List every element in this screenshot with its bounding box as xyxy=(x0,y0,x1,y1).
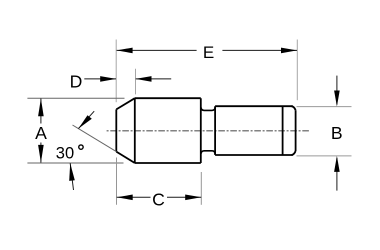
30-deg lower leader line xyxy=(70,163,73,190)
dimension D left arrow (points right at ext line) xyxy=(100,76,116,82)
extension line: A bottom horizontal / 30-deg reference xyxy=(27,162,123,164)
degree symbol of 30-deg label xyxy=(79,145,83,149)
part outline: end chamfer start vertical xyxy=(282,106,284,155)
dimension A line bottom segment xyxy=(40,143,42,163)
svg-text:E: E xyxy=(203,43,214,62)
part outline: nose left face xyxy=(115,109,117,151)
part outline: right end face xyxy=(295,110,297,151)
part outline: main cylinder top edge xyxy=(135,97,201,99)
extension line: right of E (x=297.3) xyxy=(296,40,298,101)
part outline: end chamfer bottom xyxy=(292,151,296,155)
dimension D leader left xyxy=(84,78,116,80)
svg-text:C: C xyxy=(152,189,165,209)
part outline: B cylinder top edge xyxy=(215,105,293,107)
extension line: B bottom horizontal xyxy=(297,155,352,157)
dimension A top arrow xyxy=(38,99,44,117)
svg-text:A: A xyxy=(35,123,47,143)
dimension A bottom arrow xyxy=(38,145,44,163)
extension line: C right vertical xyxy=(200,172,202,205)
30-deg upper arrow (points down-left onto chamfer extension) xyxy=(78,115,91,128)
part outline: top 30-deg chamfer xyxy=(116,98,135,109)
dimension C line right segment xyxy=(167,196,201,198)
dimension C line left segment xyxy=(117,196,151,198)
dimension E right arrow xyxy=(281,48,297,54)
part outline: step shoulder vertical xyxy=(214,106,216,155)
dimension C right arrow xyxy=(185,195,201,201)
extension line: 30-deg chamfer extension xyxy=(73,125,117,152)
part outline: main cylinder right face xyxy=(200,98,202,163)
centerline (part axis) xyxy=(107,130,310,132)
extension line: right of D (x=135.5) xyxy=(135,69,137,95)
dimension E line left segment xyxy=(117,49,197,51)
svg-text:B: B xyxy=(331,123,343,143)
part outline: chamfer tangent vertical xyxy=(134,98,136,163)
dimension D right tail xyxy=(136,78,172,80)
dimension D right arrow (points left at ext line) xyxy=(136,76,152,82)
30-deg lower arrow (points up onto reference line) xyxy=(69,163,75,181)
part outline: bottom 30-deg chamfer xyxy=(116,152,135,163)
30-deg upper leader line xyxy=(78,111,94,128)
extension line: A top horizontal xyxy=(27,97,124,99)
part outline: neck groove bottom with fillets xyxy=(201,151,215,154)
extension line: B top horizontal xyxy=(297,106,352,108)
dimension C left arrow xyxy=(117,195,133,201)
part outline: neck groove top with fillets xyxy=(201,107,215,110)
dimension B top tail xyxy=(336,76,338,105)
part outline: B cylinder bottom edge xyxy=(215,154,293,156)
dimension E line right segment xyxy=(222,49,297,51)
dimension A line top segment xyxy=(40,99,42,124)
part outline: main cylinder bottom edge xyxy=(135,162,201,164)
dimension E left arrow xyxy=(117,48,133,54)
dimension B top arrow (points down) xyxy=(334,91,340,107)
svg-text:30: 30 xyxy=(56,144,74,162)
part outline: end chamfer top xyxy=(292,106,296,110)
dimension B bottom arrow (points up) xyxy=(334,156,340,172)
svg-text:D: D xyxy=(70,71,83,91)
extension line: left of E and D (x=116) xyxy=(115,40,117,103)
extension line: C left vertical xyxy=(116,158,118,205)
dimension B bottom tail xyxy=(336,158,338,191)
